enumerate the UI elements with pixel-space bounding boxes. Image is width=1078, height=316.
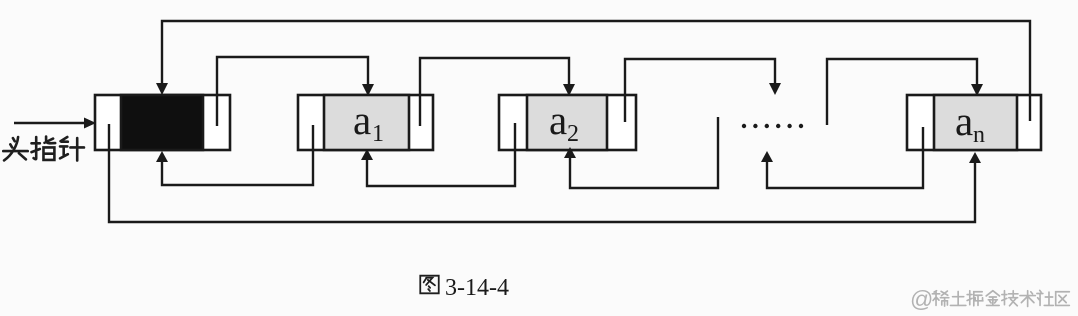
wire prev a2 to a1: [367, 123, 515, 186]
svg-text:1: 1: [372, 121, 384, 147]
head pointer arrow: [14, 118, 96, 129]
wire prev head to an (circular bottom): [109, 124, 975, 222]
wire next a2 to dots: [625, 59, 775, 122]
wire next head to a1: [217, 57, 368, 126]
node a1 box: [298, 95, 433, 150]
wire next dots to an: [827, 59, 977, 125]
wire next a1 to a2: [420, 58, 569, 126]
caption 图 3-14-4: [420, 276, 438, 294]
wire prev a1 to head: [162, 125, 313, 185]
svg-text:a: a: [353, 97, 371, 143]
svg-text:n: n: [973, 122, 985, 148]
watermark @稀土掘金技术社区: [910, 286, 1069, 312]
svg-text:a: a: [955, 98, 973, 144]
svg-text:a: a: [549, 97, 567, 143]
wire prev an to dots: [767, 127, 923, 188]
node HEAD box (black data field): [95, 95, 230, 150]
svg-text:3-14-4: 3-14-4: [445, 275, 509, 301]
wire prev dots to a2: [570, 117, 718, 188]
ellipsis dots (omitted nodes): [742, 124, 803, 128]
wire next an to head (circular top): [162, 21, 1030, 121]
node an box: [907, 95, 1041, 150]
svg-text:2: 2: [567, 121, 579, 147]
label 头指针 (head pointer text, hand-drawn glyphs): [3, 137, 84, 161]
node a2 box: [499, 95, 636, 150]
svg-text:@: @: [910, 286, 933, 312]
